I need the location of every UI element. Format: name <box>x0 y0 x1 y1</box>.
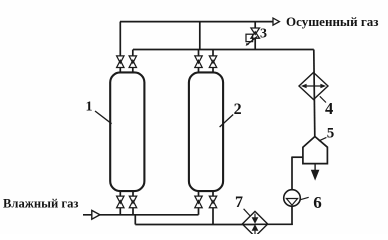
label 1 <box>86 100 93 115</box>
leader line 5 <box>319 137 327 141</box>
wire stem above valve 3 <box>254 22 256 29</box>
adsorber vessel 2 <box>189 72 223 191</box>
wire stem below valve V1d <box>132 208 134 215</box>
svg-text:6: 6 <box>313 193 322 212</box>
wire stem below valve V2d <box>212 208 214 225</box>
cooler 4 <box>299 73 328 100</box>
leader line 4 <box>320 96 326 102</box>
svg-text:5: 5 <box>327 126 335 142</box>
valve V1b <box>129 56 136 68</box>
wire T2 drop to valve V1b <box>132 50 134 57</box>
wire separator outlet to pump riser <box>292 156 303 158</box>
label 7 <box>235 194 243 211</box>
svg-text:1: 1 <box>86 100 93 115</box>
pipe A wet gas line <box>83 214 199 216</box>
wire vessel 2 to valve V2c <box>198 191 200 196</box>
pipe T2 regeneration header <box>133 49 314 51</box>
svg-text:4: 4 <box>325 99 333 118</box>
label 6 <box>313 193 322 212</box>
wire stem below valve V1c <box>119 208 121 215</box>
svg-text:Влажный газ: Влажный газ <box>3 197 78 211</box>
wire valve V1a to vessel 1 <box>119 67 121 73</box>
arrow dried gas outlet <box>273 18 279 25</box>
label 3 <box>260 27 267 42</box>
wire pump to heater 7 <box>255 223 293 225</box>
svg-text:Осушенный газ: Осушенный газ <box>286 14 378 29</box>
drain stem separator <box>314 164 316 171</box>
valve V2a <box>195 56 202 68</box>
svg-text:3: 3 <box>260 27 267 42</box>
arrow separator drain <box>311 170 320 181</box>
label 4 <box>325 99 333 118</box>
separator 5 <box>303 137 328 164</box>
wire pump discharge down <box>291 206 293 225</box>
wire valve V2b to vessel 2 <box>212 67 214 73</box>
pipe T1 dried gas header <box>120 21 273 23</box>
valve V1a <box>117 56 124 68</box>
leader line 1 <box>95 111 112 124</box>
valve V1c <box>117 196 124 208</box>
heater 7 <box>242 211 267 236</box>
leader line 7 <box>244 209 251 216</box>
wire valve V2a to vessel 2 <box>198 67 200 73</box>
wire T2 down to cooler and separator <box>314 50 315 137</box>
valve V2c <box>195 196 202 208</box>
label 5 <box>327 126 335 142</box>
wire stem below valve V2c <box>198 208 200 215</box>
svg-text:7: 7 <box>235 194 243 211</box>
pump 6 <box>284 190 301 207</box>
svg-text:2: 2 <box>234 101 242 118</box>
wire riser valve V2a to T1 <box>199 22 200 57</box>
control valve 3 <box>246 28 260 46</box>
wire vessel 1 to valve V1d <box>132 191 134 196</box>
wire riser valve V2b to T2 <box>212 50 214 57</box>
adsorber vessel 1 <box>110 72 144 191</box>
pipe B regeneration bottom line <box>135 224 255 226</box>
wire jog line A to line B <box>134 214 136 224</box>
valve V2b <box>209 56 216 68</box>
arrow wet gas inlet <box>92 210 100 219</box>
valve V1d <box>129 196 136 208</box>
valve V2d <box>209 196 216 208</box>
wire pump suction riser <box>291 157 293 191</box>
wire stem below valve 3 <box>254 38 256 49</box>
label 2 <box>234 101 242 118</box>
wire vessel 1 to valve V1c <box>119 191 121 196</box>
wire T1 drop to valve V1a <box>119 22 121 57</box>
leader line 6 <box>300 197 308 199</box>
node wet gas text <box>3 197 78 211</box>
wire vessel 2 to valve V2d <box>212 191 214 196</box>
node dried gas text <box>286 14 378 29</box>
leader line 2 <box>220 115 234 128</box>
wire valve V1b to vessel 1 <box>132 67 134 73</box>
